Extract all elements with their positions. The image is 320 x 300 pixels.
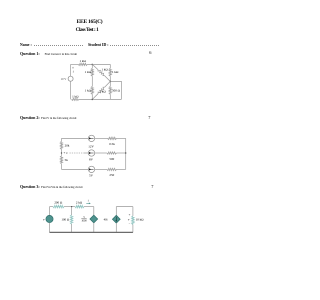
svg-text:1 kΩ: 1 kΩ	[85, 70, 92, 74]
resistor R4 1 kOhm (bridge left lower)	[91, 86, 93, 94]
wire: c3 right vertical top lead	[132, 207, 134, 216]
title EEE 165(C)	[0, 19, 179, 25]
resistor 200 Ohm	[53, 205, 64, 207]
resistor R3 1 kOhm (bridge left upper)	[91, 68, 93, 76]
wire: c2 left vertical top segment	[61, 138, 63, 141]
source Vs (filled circle)	[46, 215, 53, 222]
wire	[61, 164, 63, 170]
svg-text:20k: 20k	[65, 143, 70, 147]
resistor R11 0.5k (top right)	[108, 137, 117, 139]
svg-text:2 kΩ: 2 kΩ	[76, 200, 83, 204]
svg-text:8V: 8V	[89, 157, 94, 161]
question 1 heading	[20, 51, 77, 56]
wire: dep source 1 branch top lead	[93, 207, 95, 216]
wire	[95, 168, 107, 170]
current source I1	[88, 135, 94, 141]
question 3 heading	[20, 184, 83, 189]
resistor 10 kOhm	[132, 216, 134, 225]
resistor R6 500 Ohm (bridge right lower)	[109, 86, 111, 94]
svg-text:10 V: 10 V	[61, 77, 68, 81]
wire	[64, 206, 75, 208]
resistor R1 1 kOhm (top)	[78, 63, 87, 65]
question 2 heading	[20, 115, 76, 120]
wire: c3 right loop top rail	[116, 206, 133, 208]
svg-text:500 Ω: 500 Ω	[112, 88, 121, 92]
resistor R9 20k (left upper)	[60, 141, 62, 149]
dependent source D2 (diamond with arrow)	[112, 215, 120, 223]
svg-text:1000: 1000	[81, 219, 87, 222]
svg-text:200 Ω: 200 Ω	[54, 200, 63, 204]
wire	[49, 223, 51, 233]
svg-text:1 kΩ: 1 kΩ	[85, 88, 92, 92]
wire	[117, 152, 126, 154]
svg-text:+ v: + v	[64, 151, 69, 155]
svg-text:i: i	[73, 69, 74, 73]
node: bridge middle junction	[110, 81, 111, 82]
node: c2 left middle junction	[61, 152, 62, 153]
node: c2 right middle junction	[125, 152, 126, 153]
wire	[93, 223, 95, 233]
svg-text:0.5k: 0.5k	[109, 142, 115, 146]
svg-text:12V: 12V	[88, 144, 94, 148]
svg-text:5V: 5V	[89, 174, 94, 178]
wire	[115, 223, 117, 232]
wire	[117, 137, 126, 139]
current arrow i	[72, 67, 73, 69]
svg-text:1 kΩ: 1 kΩ	[101, 68, 108, 72]
resistor R10 5k (left lower)	[60, 156, 62, 164]
svg-text:+: +	[129, 213, 131, 217]
svg-text:10 kΩ: 10 kΩ	[136, 217, 145, 221]
wire: outer right branch	[110, 81, 121, 99]
svg-text:−: −	[129, 222, 131, 226]
svg-text:40i: 40i	[104, 217, 108, 221]
wire: c2 bottom rail left	[62, 168, 89, 170]
wire: c2 right vertical	[125, 138, 127, 169]
name line	[20, 43, 32, 47]
current arrow io	[86, 202, 90, 204]
voltage source V1 10V	[68, 76, 73, 81]
svg-text:250: 250	[109, 173, 114, 177]
current source I2	[88, 150, 94, 156]
svg-text:1 kΩ: 1 kΩ	[99, 90, 106, 94]
resistor R13 250 (bottom right)	[107, 168, 117, 170]
wire: left rail bottom (source bottom lead)	[70, 81, 72, 99]
wire	[117, 168, 126, 170]
current source I3	[88, 166, 94, 172]
svg-text:1 kΩ: 1 kΩ	[80, 59, 87, 63]
wire	[91, 94, 93, 99]
dependent source D1 (diamond)	[90, 215, 98, 223]
svg-text:1 kΩ: 1 kΩ	[112, 70, 119, 74]
wire: c3 top rail left	[50, 206, 54, 208]
svg-text:5k: 5k	[65, 158, 69, 162]
svg-text:100 Ω: 100 Ω	[61, 217, 70, 221]
wire: left rail top (source top lead)	[70, 64, 72, 76]
wire: bridge right vertical upper	[109, 64, 111, 68]
wire	[91, 76, 93, 86]
wire: c2 top rail	[62, 137, 89, 139]
wire	[84, 206, 94, 208]
wire	[95, 137, 108, 139]
svg-text:500: 500	[109, 157, 114, 161]
wire: circuit1 top rail left segment	[71, 63, 79, 65]
wire	[132, 225, 134, 233]
resistor R7 1 kOhm (diagonal upper)	[92, 64, 98, 69]
wire: 100 Ohm branch top lead	[71, 207, 73, 215]
wire	[71, 224, 73, 232]
title Class Test : 1	[0, 27, 174, 33]
wire: dep source 2 branch top lead	[115, 207, 117, 216]
node: bridge top junction	[92, 64, 93, 65]
wire: circuit1 top rail right segment	[87, 63, 110, 65]
resistor 2 kOhm	[75, 205, 84, 207]
resistor R5 1 kOhm (bridge right upper)	[109, 68, 111, 76]
wire: c3 bottom rail (dark)	[50, 231, 133, 233]
svg-text:1 kΩ: 1 kΩ	[72, 94, 79, 98]
wire	[109, 76, 111, 86]
wire: bottom rail	[79, 98, 122, 100]
wire: c3 left vertical	[49, 207, 51, 216]
svg-text:v: v	[43, 217, 45, 221]
node: 100 Ohm tap junction	[71, 206, 72, 207]
node: bridge bottom-left junction	[92, 99, 93, 100]
wire: bridge left vertical segments	[91, 64, 93, 68]
resistor R12 500 (middle right)	[107, 152, 117, 154]
wire: c2 middle rail left	[84, 152, 88, 154]
resistor 100 Ohm	[70, 215, 72, 224]
resistor R2 1 kOhm (bottom-left)	[72, 98, 79, 100]
resistor R8 1 kOhm (diagonal lower)	[105, 81, 111, 87]
wire	[109, 94, 111, 99]
wire	[61, 149, 63, 156]
wire	[95, 152, 107, 154]
svg-text:i: i	[88, 200, 89, 203]
